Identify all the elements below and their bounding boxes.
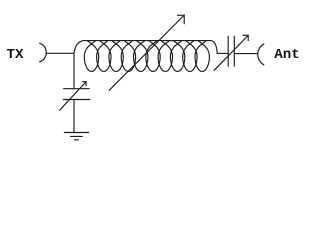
wire C1 down to ground [73,100,75,133]
connector J2 (Ant side) [258,44,264,65]
svg-text:TX: TX [7,47,25,63]
wire TX connector to junction [46,52,74,54]
variable inductor L1 (roller coil) [74,41,211,72]
svg-text:Ant: Ant [274,47,300,63]
label TX [7,47,25,63]
wire L1 right lead to C2 [211,41,228,54]
ground [64,133,88,140]
wire C2 to Ant connector [234,53,257,55]
node junction (wire / C1 / L1) [73,52,75,54]
label Ant [274,47,300,63]
arrow of variable inductor L1 [109,15,184,91]
wire junction down to C1 [73,53,75,88]
variable capacitor C2 (series) [214,35,248,70]
variable capacitor C1 (shunt) [60,82,90,111]
connector J1 (TX side) [40,43,47,62]
